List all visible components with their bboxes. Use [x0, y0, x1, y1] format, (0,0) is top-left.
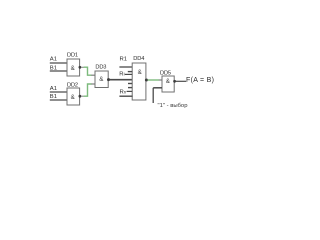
wire DD2 out to DD3 in2 (green) [84, 84, 92, 96]
svg-text:B1: B1 [50, 94, 57, 100]
DD3 output dot [107, 78, 110, 81]
svg-text:DD4: DD4 [133, 56, 144, 62]
wire R1 to DD4 [119, 66, 132, 68]
DD2 output stub [81, 95, 84, 97]
pin Ri dash [125, 73, 132, 75]
svg-text:A1: A1 [50, 86, 57, 92]
svg-text:"1" - выбор: "1" - выбор [158, 103, 189, 109]
svg-text:F(A = B): F(A = B) [186, 77, 214, 84]
DD3 in2 stub [91, 83, 95, 85]
DD4 unconnected pin stub [128, 87, 132, 89]
comparator DD4 body [132, 63, 146, 100]
"1" select lead (vertical) [152, 88, 154, 103]
DD4 output dot [145, 79, 148, 82]
DD1 output dot [79, 66, 82, 69]
DD1 output stub [81, 66, 84, 68]
DD3 in1 stub [91, 74, 95, 76]
wire DD3 out to DD4 Ri pin [110, 79, 133, 81]
wire DD5 out to F [176, 80, 186, 82]
svg-text:DD5: DD5 [160, 70, 171, 76]
gate DD2 body [67, 88, 80, 105]
DD4 unconnected pin stub [128, 71, 132, 73]
svg-text:DD1: DD1 [67, 53, 78, 59]
wire A1 to DD2 [50, 91, 67, 93]
svg-text:DD3: DD3 [95, 64, 106, 70]
DD4 unconnected pin stub [128, 83, 132, 85]
DD2 output dot [79, 95, 82, 98]
wire DD5 in2 from "1" lead [153, 87, 162, 89]
wire DD4 out to DD5 (green) [148, 79, 159, 81]
pin Rn dash [127, 90, 133, 92]
DD5 output dot [173, 80, 176, 83]
gate DD1 body [67, 59, 80, 76]
wire DD1 out to DD3 in1 (green) [84, 67, 92, 75]
DD5 in1 stub [159, 79, 162, 81]
wire Rn input to DD4 [119, 95, 132, 97]
wire A1 to DD1 [50, 62, 67, 64]
wire B1 to DD2 [50, 99, 67, 101]
svg-text:A1: A1 [50, 57, 57, 63]
gate DD3 body [95, 71, 108, 88]
svg-text:R1: R1 [120, 56, 128, 62]
wire B1 to DD1 [50, 70, 67, 72]
gate DD5 body [162, 76, 174, 92]
svg-text:DD2: DD2 [67, 82, 78, 88]
